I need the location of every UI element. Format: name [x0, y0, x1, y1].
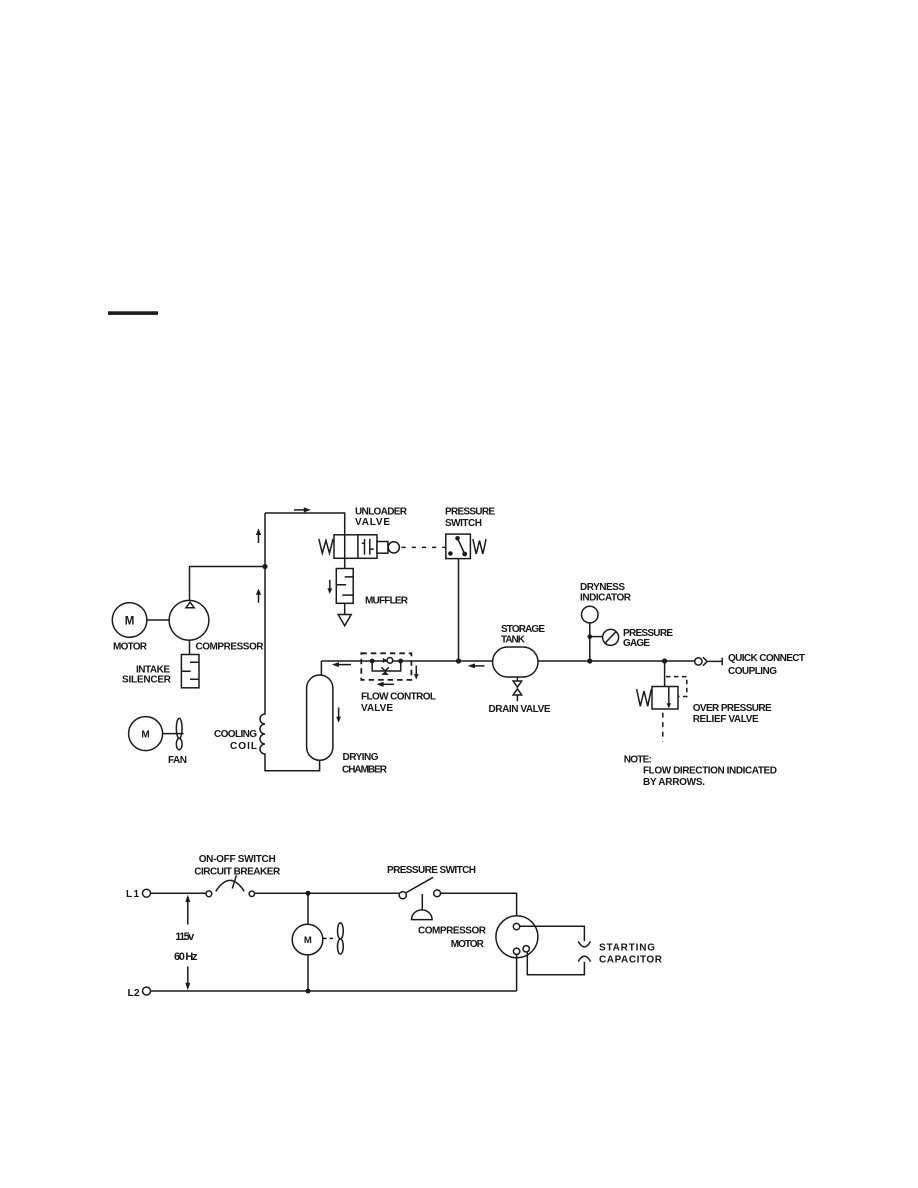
top horizontal wire to unloader valve [265, 513, 345, 535]
svg-text:INDICATOR: INDICATOR [580, 593, 632, 604]
down arrow right of flow control [415, 666, 417, 675]
fan motor circle [129, 717, 163, 751]
svg-text:STORAGE: STORAGE [501, 624, 545, 635]
svg-text:COMPRESSOR: COMPRESSOR [418, 926, 487, 937]
pressure switch terminals (electrical) [399, 892, 406, 899]
flow control junction dots [370, 659, 375, 664]
unloader valve divider [357, 535, 359, 559]
pressure switch contacts [455, 536, 460, 541]
muffler exhaust stem [344, 603, 346, 614]
compressor discharge wire to main line [190, 567, 266, 601]
svg-text:60 Hz: 60 Hz [174, 951, 198, 963]
svg-text:CAPACITOR: CAPACITOR [599, 955, 663, 966]
relief valve inner line with arrow [668, 687, 670, 704]
svg-text:TANK: TANK [501, 635, 526, 646]
motor shaft wire [146, 619, 169, 621]
intake silencer baffles [181, 662, 199, 679]
flow control valve dashed box [361, 653, 411, 680]
flow control needle valve [381, 667, 389, 671]
unloader valve spring [319, 539, 333, 553]
storage tank [493, 647, 538, 677]
pressure switch spring [473, 539, 486, 554]
svg-text:115v: 115v [175, 931, 195, 943]
svg-text:DRYING: DRYING [343, 752, 379, 763]
svg-text:L2: L2 [128, 988, 140, 999]
svg-text:M: M [304, 935, 312, 946]
motor wire down to bottom [516, 955, 518, 992]
left flow arrow near chamber [339, 664, 352, 666]
top wire segment 2 [255, 892, 400, 894]
junction dot relief branch [662, 658, 667, 663]
unloader valve actuator box [377, 542, 388, 554]
svg-text:BY ARROWS.: BY ARROWS. [643, 777, 705, 788]
svg-text:STARTING: STARTING [599, 943, 655, 954]
main riser line with cooling coil [260, 513, 320, 771]
capacitor top wire [520, 926, 585, 941]
svg-text:COOLING: COOLING [214, 729, 257, 740]
svg-text:MUFFLER: MUFFLER [365, 596, 409, 607]
L1 terminal [143, 889, 151, 897]
left flow arrow near tank [475, 665, 485, 667]
fan branch wire down [307, 893, 309, 924]
relief valve stem [664, 661, 666, 687]
relief valve drain dashed [662, 713, 664, 742]
unloader valve blocked-port plates [362, 539, 374, 555]
compressor motor circle [496, 916, 538, 958]
compressor inlet triangle [186, 602, 194, 608]
up flow arrow 2 [258, 594, 260, 603]
intake silencer body [181, 655, 199, 688]
drying chamber [307, 675, 333, 760]
capacitor bottom wire [527, 952, 584, 975]
pressure switch blade [458, 538, 465, 554]
flow control orifice arrowhead [383, 658, 387, 663]
breaker arc [216, 880, 244, 891]
main pipe right segment [538, 660, 695, 662]
unloader valve pipe through [344, 535, 346, 559]
pressure switch blade (electrical) [406, 877, 433, 892]
svg-text:GAGE: GAGE [623, 638, 650, 649]
up flow arrow 1 [258, 535, 260, 544]
svg-text:RELIEF VALVE: RELIEF VALVE [693, 714, 759, 725]
svg-text:QUICK CONNECT: QUICK CONNECT [728, 653, 805, 664]
dryness indicator circle [582, 606, 599, 623]
junction dot discharge [262, 564, 267, 569]
svg-text:OVER PRESSURE: OVER PRESSURE [693, 703, 772, 714]
down arrow right of chamber [338, 708, 340, 718]
pressure switch diaphragm dome [412, 910, 433, 920]
dimension line 115v [187, 899, 189, 986]
quick connect line and tick [708, 658, 722, 666]
motor terminal bottom-left [513, 948, 519, 954]
svg-text:VALVE: VALVE [361, 703, 393, 714]
junction dot gage branch [588, 634, 593, 639]
muffler down arrow [329, 580, 331, 589]
top wire segment 1 [151, 892, 207, 894]
unloader valve pilot circle [388, 542, 399, 553]
compressor circle [169, 600, 209, 640]
svg-text:PRESSURE SWITCH: PRESSURE SWITCH [387, 865, 476, 876]
svg-text:CIRCUIT BREAKER: CIRCUIT BREAKER [194, 867, 281, 878]
fan propeller blades [176, 718, 182, 738]
fan shaft wire [163, 733, 184, 735]
junction dot on pipe [587, 658, 592, 663]
muffler exhaust triangle [338, 615, 351, 626]
svg-text:M: M [125, 615, 135, 627]
junction dot sense line [456, 658, 461, 663]
heading rule bar [108, 311, 158, 315]
svg-text:L1: L1 [126, 889, 139, 900]
svg-text:COMPRESSOR: COMPRESSOR [196, 642, 265, 653]
relief valve pilot dashed [666, 677, 687, 697]
svg-text:DRAIN VALVE: DRAIN VALVE [489, 704, 551, 715]
muffler baffles [336, 577, 353, 595]
pressure switch sense line down [458, 559, 460, 661]
junction dot fan branch [306, 891, 311, 896]
motor terminal bottom-right [523, 946, 529, 952]
pressure gage needle [605, 631, 617, 643]
quick connect circle [695, 658, 702, 665]
svg-text:MOTOR: MOTOR [451, 939, 485, 950]
svg-text:SILENCER: SILENCER [122, 675, 172, 686]
pressure switch actuator stem [421, 894, 423, 910]
capacitor plates [578, 941, 590, 947]
motor terminal top [513, 923, 519, 929]
right flow arrow top [294, 509, 304, 511]
quick connect chevron [703, 657, 707, 666]
main pipe left segment [321, 661, 492, 675]
svg-text:NOTE:: NOTE: [624, 755, 652, 766]
breaker terminal circles [206, 891, 212, 897]
gage branch wire [590, 636, 603, 638]
drain valve stem [516, 677, 518, 702]
flow control bypass arrow below [383, 683, 394, 685]
svg-text:FLOW DIRECTION INDICATED: FLOW DIRECTION INDICATED [643, 766, 777, 777]
fan motor wire down [307, 955, 309, 991]
svg-text:PRESSURE: PRESSURE [445, 507, 495, 518]
drain valve triangles [513, 681, 522, 687]
top wire segment 3 [441, 893, 517, 923]
flow control bypass loop [372, 661, 401, 671]
wire compressor to intake silencer [189, 640, 191, 655]
svg-text:ON-OFF SWITCH: ON-OFF SWITCH [199, 854, 276, 865]
junction dot bottom [306, 989, 311, 994]
svg-text:VALVE: VALVE [355, 517, 390, 528]
pilot dashed line to pressure switch [402, 546, 446, 548]
svg-text:FAN: FAN [168, 755, 187, 766]
relief valve spring [637, 689, 652, 706]
relief valve body [652, 687, 678, 710]
breaker tick [232, 875, 236, 888]
muffler body [336, 569, 353, 604]
svg-text:MOTOR: MOTOR [113, 642, 148, 653]
unloader valve body [334, 535, 377, 559]
svg-text:M: M [141, 729, 149, 740]
fan motor dashed shaft [323, 937, 336, 939]
svg-text:DRYNESS: DRYNESS [580, 582, 625, 593]
dryness indicator stem [589, 623, 591, 661]
svg-text:CHAMBER: CHAMBER [342, 765, 388, 776]
svg-text:COUPLING: COUPLING [728, 666, 777, 677]
bottom wire [151, 990, 517, 992]
fan propeller (electrical) [338, 923, 344, 939]
svg-text:SWITCH: SWITCH [445, 518, 482, 529]
pressure gage circle [603, 629, 619, 645]
motor circle [112, 603, 147, 638]
svg-text:FLOW CONTROL: FLOW CONTROL [361, 692, 436, 703]
flow control orifice circle [387, 658, 393, 664]
svg-text:COIL: COIL [230, 741, 257, 752]
pressure switch box (pneumatic) [446, 534, 471, 559]
muffler stem top [344, 558, 346, 568]
fan motor circle (electrical) [292, 924, 323, 955]
L2 terminal [143, 987, 151, 995]
